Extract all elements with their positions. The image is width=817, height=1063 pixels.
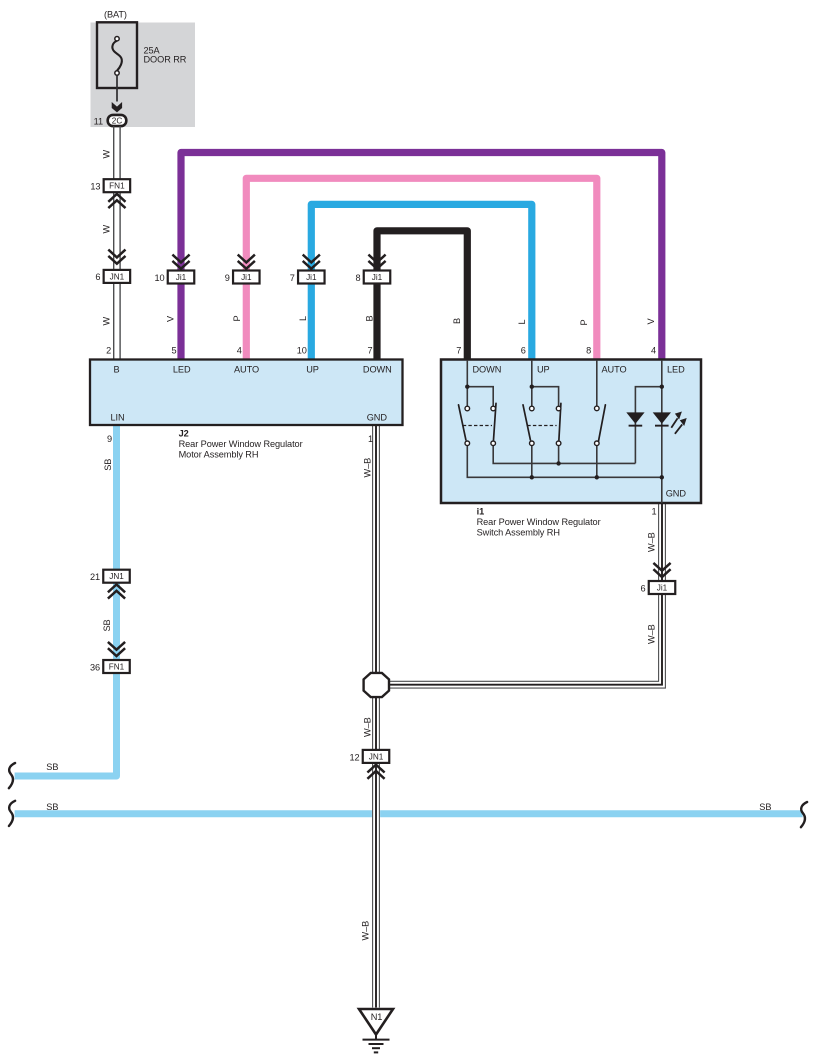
svg-text:9: 9 [107,434,112,444]
svg-text:L: L [517,319,527,324]
svg-text:Ji1: Ji1 [372,273,383,282]
svg-text:V: V [646,318,656,325]
svg-text:SB: SB [46,802,58,812]
svg-text:P: P [579,319,589,325]
svg-text:FN1: FN1 [109,182,125,191]
svg-text:JN1: JN1 [369,752,384,761]
svg-text:2C: 2C [112,117,123,126]
svg-text:DOWN: DOWN [363,365,392,375]
svg-text:4: 4 [651,346,656,356]
svg-text:W–B: W–B [361,921,371,941]
svg-text:J2: J2 [179,428,189,438]
svg-text:DOOR RR: DOOR RR [144,54,187,64]
svg-text:(BAT): (BAT) [104,10,127,20]
svg-text:W: W [102,150,112,159]
svg-text:W–B: W–B [363,458,373,478]
svg-text:Ji1: Ji1 [241,273,252,282]
svg-text:SB: SB [102,619,112,631]
svg-text:B: B [452,318,462,324]
svg-text:Motor Assembly RH: Motor Assembly RH [179,450,259,460]
svg-text:GND: GND [666,489,687,499]
svg-text:V: V [166,315,176,322]
svg-text:LED: LED [667,365,685,375]
svg-text:1: 1 [651,506,656,516]
svg-text:4: 4 [237,346,242,356]
svg-text:5: 5 [171,346,176,356]
svg-text:LIN: LIN [110,412,124,422]
svg-text:N1: N1 [371,1012,383,1022]
svg-text:W–B: W–B [363,717,373,737]
svg-text:FN1: FN1 [109,663,125,672]
svg-text:W: W [102,317,112,326]
svg-text:Rear Power Window Regulator: Rear Power Window Regulator [179,439,303,449]
svg-text:SB: SB [759,802,771,812]
svg-text:i1: i1 [477,506,485,516]
svg-text:DOWN: DOWN [473,365,502,375]
svg-text:2: 2 [106,346,111,356]
svg-text:GND: GND [367,412,388,422]
svg-text:B: B [364,315,374,321]
svg-text:L: L [298,316,308,321]
svg-text:P: P [232,315,242,321]
svg-text:SB: SB [46,762,58,772]
svg-text:W: W [102,225,112,234]
svg-text:12: 12 [349,752,359,762]
svg-text:W–B: W–B [646,532,656,552]
svg-text:SB: SB [103,459,113,471]
svg-text:8: 8 [355,273,360,283]
svg-text:8: 8 [586,346,591,356]
svg-text:UP: UP [306,365,319,375]
svg-text:10: 10 [154,273,164,283]
svg-text:Ji1: Ji1 [657,584,668,593]
svg-text:Switch Assembly RH: Switch Assembly RH [477,528,560,538]
svg-text:B: B [113,365,119,375]
svg-text:10: 10 [297,346,307,356]
svg-text:AUTO: AUTO [234,365,259,375]
svg-text:36: 36 [90,662,100,672]
svg-text:6: 6 [95,272,100,282]
svg-text:1: 1 [368,434,373,444]
svg-text:6: 6 [521,346,526,356]
svg-text:9: 9 [225,273,230,283]
svg-text:LED: LED [173,365,191,375]
svg-text:Ji1: Ji1 [176,273,187,282]
svg-text:7: 7 [290,273,295,283]
svg-text:21: 21 [90,572,100,582]
svg-text:7: 7 [456,346,461,356]
svg-text:JN1: JN1 [109,572,124,581]
svg-text:6: 6 [640,583,645,593]
svg-text:W–B: W–B [646,624,656,644]
svg-text:13: 13 [90,181,100,191]
svg-text:7: 7 [367,346,372,356]
svg-text:11: 11 [94,116,103,126]
svg-text:Ji1: Ji1 [306,273,317,282]
svg-text:AUTO: AUTO [602,365,627,375]
svg-text:Rear Power Window Regulator: Rear Power Window Regulator [477,517,601,527]
svg-text:JN1: JN1 [110,272,125,281]
svg-text:UP: UP [537,365,550,375]
